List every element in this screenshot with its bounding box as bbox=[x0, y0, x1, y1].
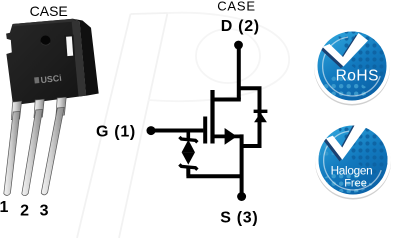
svg-text:2: 2 bbox=[20, 202, 29, 219]
side slot bbox=[64, 35, 75, 58]
svg-text:3: 3 bbox=[40, 203, 49, 220]
svg-text:D (2): D (2) bbox=[221, 18, 260, 35]
pin 3 leg bbox=[41, 97, 66, 195]
svg-text:Free: Free bbox=[344, 178, 367, 190]
front face bbox=[6, 19, 86, 106]
MOSFET Q1 channel bar bbox=[210, 90, 214, 144]
MOSFET Q1 body arrow bbox=[225, 128, 237, 145]
svg-text:1: 1 bbox=[0, 199, 8, 216]
right bevel band bbox=[72, 20, 87, 97]
package TO-247 body bbox=[6, 19, 99, 106]
RoHS checkmark bbox=[320, 35, 366, 68]
side face bbox=[73, 19, 99, 96]
zener Z2 bbox=[179, 152, 197, 170]
node S terminal dot bbox=[237, 192, 246, 201]
watermark P bbox=[77, 13, 289, 238]
wire drain to body-diode branch bbox=[237, 88, 260, 146]
wire gate horizontal bbox=[151, 129, 203, 133]
node G terminal dot bbox=[147, 126, 156, 135]
USCi logo text bbox=[34, 73, 62, 86]
wire zener branch vertical bbox=[187, 131, 191, 140]
badge RoHS bbox=[314, 26, 398, 106]
svg-text:S (3): S (3) bbox=[220, 209, 258, 226]
zener Z1 bbox=[179, 137, 197, 152]
mounting hole bbox=[41, 36, 51, 46]
svg-text:CASE: CASE bbox=[30, 3, 68, 19]
Halogen Free checkmark bbox=[323, 121, 364, 161]
svg-text:G (1): G (1) bbox=[96, 124, 136, 141]
svg-text:CASE: CASE bbox=[217, 0, 256, 14]
pin 2 leg bbox=[22, 99, 44, 196]
MOSFET Q1 gate bar bbox=[203, 117, 207, 144]
body diode D1 bbox=[254, 111, 268, 122]
wire drain vertical bbox=[237, 45, 241, 100]
svg-text:RoHS: RoHS bbox=[336, 68, 379, 85]
badge Halogen Free bbox=[315, 120, 399, 200]
wire source with body arrow bbox=[215, 134, 242, 138]
wire source vertical bbox=[240, 134, 244, 196]
node D terminal dot bbox=[234, 41, 243, 50]
svg-text:Halogen: Halogen bbox=[331, 164, 373, 178]
wire drain horizontal to channel bbox=[211, 98, 241, 102]
top bevel bbox=[13, 19, 74, 27]
wire zener to source bbox=[186, 167, 241, 176]
pin 1 leg bbox=[4, 101, 22, 195]
